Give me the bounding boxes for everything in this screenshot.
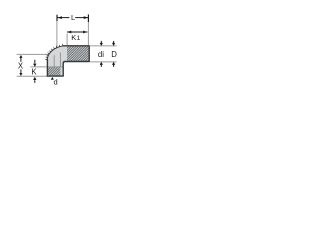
svg-text:d: d [54,77,58,86]
svg-text:X: X [18,62,24,71]
svg-text:D: D [111,50,117,59]
svg-text:K: K [31,67,37,76]
svg-text:K: K [71,33,76,42]
svg-text:L: L [71,13,75,22]
svg-text:di: di [98,50,104,59]
svg-text:1: 1 [77,35,81,42]
